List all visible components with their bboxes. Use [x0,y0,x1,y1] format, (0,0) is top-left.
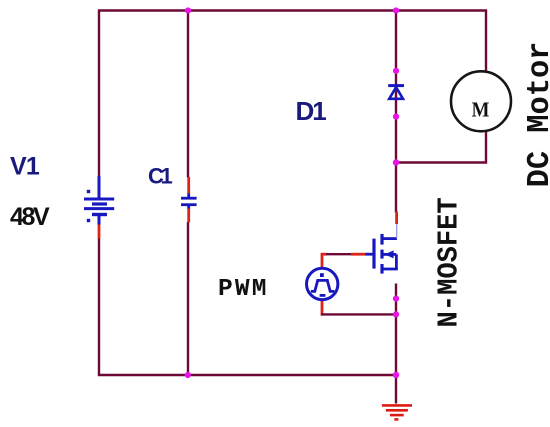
battery V1 symbol [84,176,114,225]
junction dot mosfet source [393,296,399,302]
gate stub blue [366,253,375,256]
pin red battery bottom stub [98,224,101,239]
wire motor bottom to junction [396,131,486,163]
wire source branch vertical down to ground [395,284,397,404]
wire bottom horizontal bus [98,374,397,376]
junction dot bottom capacitor [185,372,191,378]
svg-text:M: M [472,98,490,121]
pin red PWM top stub [321,253,324,269]
wire battery branch bottom vertical [98,238,100,376]
wire top horizontal bus [98,9,487,11]
svg-text:DC Motor: DC Motor [523,42,550,188]
wire capacitor branch top vertical [187,11,189,178]
motor M1 circle [451,71,511,131]
pin red capacitor bottom stub [187,208,190,223]
wire PWM gate horizontal [321,253,327,256]
channel middle segment [380,250,383,259]
svg-text:48V: 48V [10,203,50,231]
wire battery branch top vertical [98,11,100,178]
pin red PWM bottom stub [321,299,324,315]
capacitor C1 symbol [181,194,197,209]
svg-text:PWM: PWM [218,276,269,303]
gate bar [372,239,375,269]
PWM source circle [307,268,338,299]
pin red gate stub [351,253,366,256]
pin red drain stub [395,212,398,225]
PWM polarity dot [320,273,324,277]
channel top segment [380,234,383,245]
svg-text:D1: D1 [296,96,327,126]
wire PWM source bottom horizontal [321,313,397,315]
junction dot motor branch [393,159,399,165]
ground symbol [382,405,412,419]
svg-text:C1: C1 [148,164,172,189]
wire capacitor branch bottom vertical [187,222,189,376]
diode D1 symbol [388,86,404,99]
drain riser thin [396,224,398,239]
junction dot diode anode [393,68,399,74]
svg-text:N-MOSFET: N-MOSFET [434,197,466,327]
body lead with arrow [382,253,396,256]
svg-text:V1: V1 [10,153,40,181]
wire diode branch vertical [395,11,397,164]
wire motor branch top vertical [485,11,487,73]
n-mosfet Q1 symbol [366,224,398,274]
PWM pulse waveform [311,280,335,291]
junction dot top diode [393,7,399,13]
source riser [395,254,398,269]
drain lead horizontal [382,237,397,240]
junction dot ground [393,372,399,378]
junction dot pwm return [393,311,399,317]
PWM minus dash [320,294,326,297]
pin red capacitor top stub [187,177,190,194]
source lead horizontal [382,268,398,271]
wire drain branch vertical [395,163,397,213]
channel bottom segment [380,264,383,274]
junction dot diode cathode [393,114,399,120]
junction dot top capacitor [185,7,191,13]
